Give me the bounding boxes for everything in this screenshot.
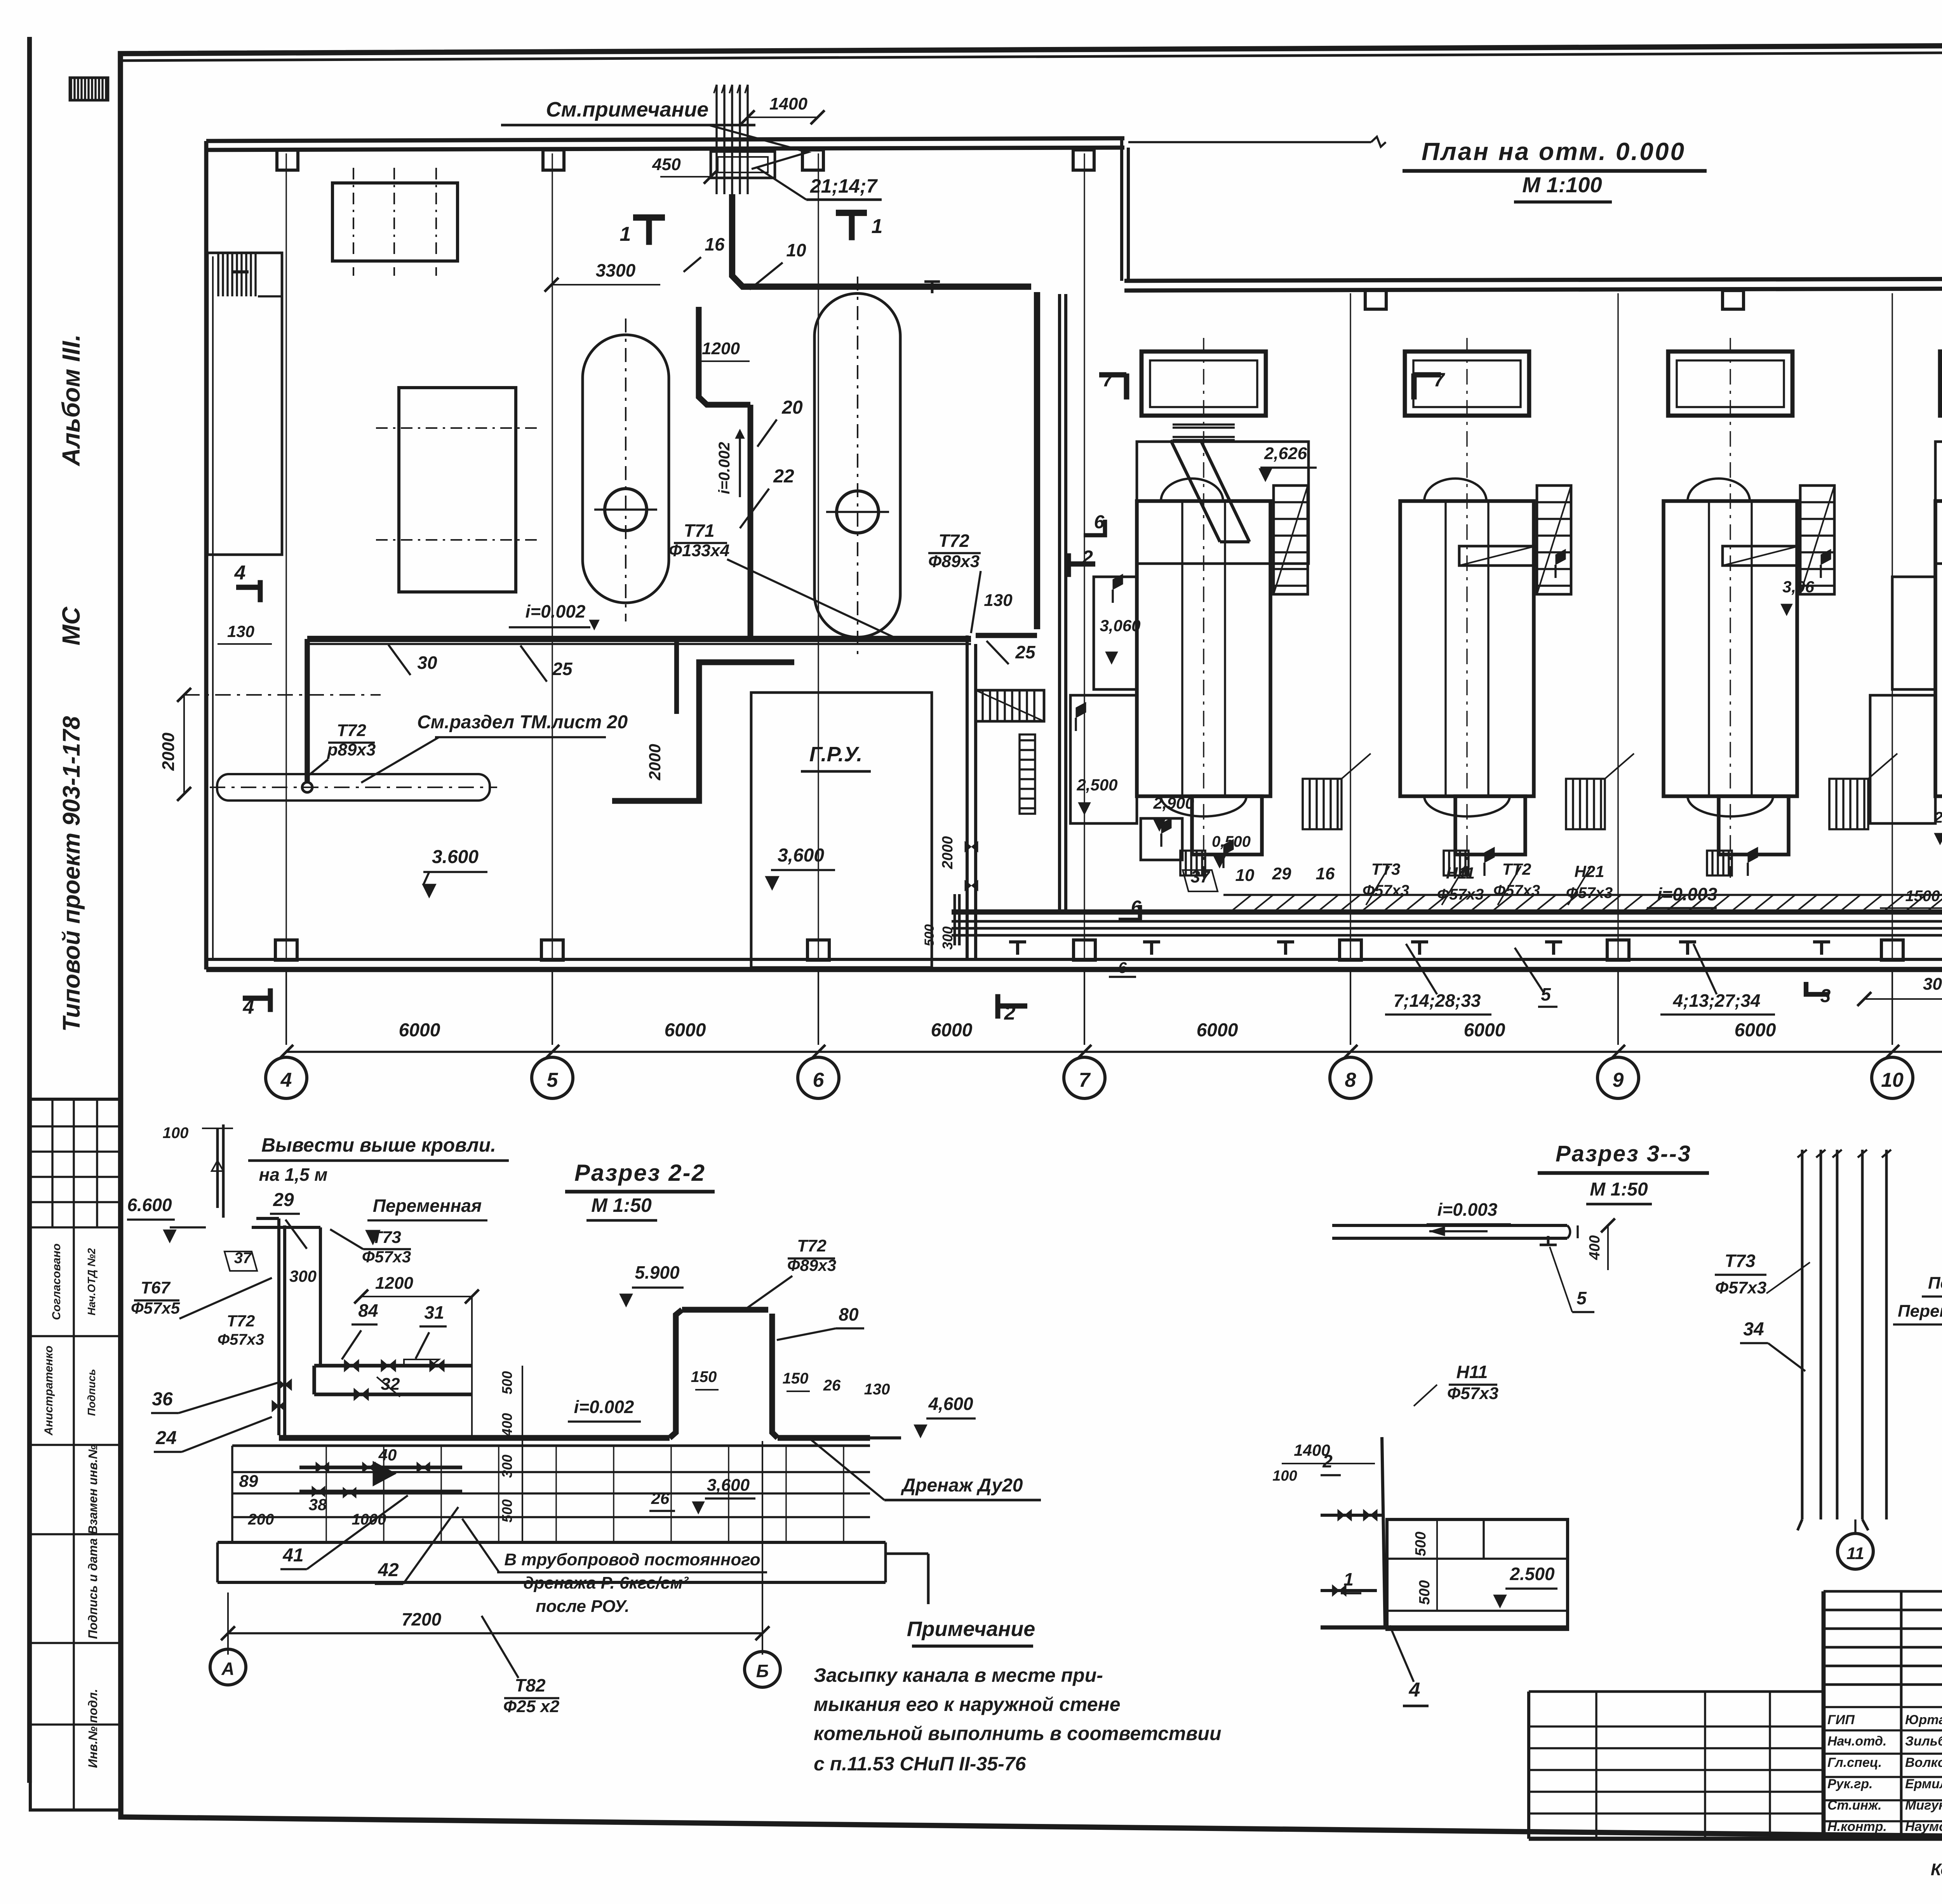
- svg-text:16: 16: [705, 234, 725, 254]
- svg-text:10: 10: [1881, 1069, 1904, 1091]
- svg-text:16: 16: [1316, 864, 1335, 883]
- label 80 sec2: [777, 1304, 864, 1340]
- grid bubble 11 sec3: [1838, 1519, 1873, 1569]
- section mark 6 upper: [1084, 512, 1105, 535]
- svg-text:2,626: 2,626: [1264, 444, 1307, 463]
- risers 2-2: [252, 1218, 320, 1435]
- svg-text:Ф57х5: Ф57х5: [131, 1299, 180, 1317]
- svg-text:3,060: 3,060: [1100, 616, 1140, 635]
- svg-text:дренажа Р. 6кгс/см²: дренажа Р. 6кгс/см²: [523, 1573, 689, 1592]
- dims 300 1200 sec2: [289, 1267, 479, 1304]
- svg-text:Т72: Т72: [337, 721, 366, 740]
- svg-text:29: 29: [273, 1190, 294, 1210]
- svg-text:4: 4: [1409, 1679, 1420, 1701]
- label Т72 Ф89x3 sec2: [746, 1236, 836, 1309]
- label 21;14;7: [757, 168, 882, 200]
- revision table left margin: [30, 1099, 120, 1810]
- note text line2: [814, 1693, 1121, 1715]
- leader label 5: [1515, 948, 1557, 1007]
- drain note sec2: [462, 1519, 767, 1616]
- svg-text:21;14;7: 21;14;7: [810, 175, 878, 197]
- svg-text:150: 150: [783, 1370, 809, 1387]
- svg-text:Ф57х3: Ф57х3: [362, 1248, 411, 1266]
- svg-text:36: 36: [152, 1389, 173, 1410]
- svg-text:6000: 6000: [399, 1020, 440, 1041]
- trench box sec3: [1387, 1519, 1568, 1629]
- floor channel pipes along axis А: [952, 895, 1942, 935]
- svg-text:Юртаев: Юртаев: [1905, 1713, 1942, 1727]
- subtitle М 1:100: [1514, 172, 1612, 202]
- dim 400 sec3: [1587, 1218, 1615, 1270]
- label Копировал: [1931, 1860, 1942, 1879]
- svg-text:i=0.002: i=0.002: [526, 601, 586, 621]
- svg-text:МС: МС: [57, 606, 85, 645]
- svg-text:Взамен инв.№: Взамен инв.№: [86, 1445, 100, 1534]
- elevation 2,500 boiler1: [1076, 776, 1117, 815]
- svg-text:100: 100: [1272, 1468, 1297, 1484]
- svg-text:5.900: 5.900: [635, 1262, 680, 1283]
- svg-text:1200: 1200: [702, 339, 740, 358]
- equipment foundation F1 dashed: [332, 168, 458, 276]
- svg-text:i=0.003: i=0.003: [1657, 884, 1718, 904]
- svg-text:Г.Р.У.: Г.Р.У.: [809, 743, 863, 766]
- dim 7200 sec2: [221, 1441, 769, 1655]
- trench grid sec2: [218, 1446, 886, 1542]
- grid bubble Б sec2: [745, 1652, 780, 1687]
- section title Разрез 2-2: [565, 1160, 715, 1192]
- svg-text:1400: 1400: [769, 94, 807, 113]
- label 34 sec3: [1740, 1319, 1805, 1371]
- svg-text:3.600: 3.600: [432, 847, 479, 867]
- svg-text:42: 42: [378, 1560, 399, 1580]
- svg-text:Т73: Т73: [1724, 1251, 1756, 1271]
- svg-text:Т73: Т73: [372, 1228, 401, 1247]
- note text line3: [814, 1723, 1222, 1744]
- svg-text:500: 500: [1416, 1580, 1433, 1605]
- stamp hatch box top-left margin: [70, 78, 108, 100]
- grid bubble 9: [1597, 1057, 1639, 1098]
- position flags: [1076, 367, 1942, 876]
- label Переменная sec2: [365, 1196, 487, 1245]
- svg-text:Анистратенко: Анистратенко: [42, 1345, 55, 1436]
- grid bubble 8: [1330, 1057, 1371, 1098]
- title План на отм. 0.000: [1403, 137, 1707, 171]
- svg-text:М 1:100: М 1:100: [1522, 172, 1602, 197]
- section mark 4 bottom-left: [243, 989, 273, 1018]
- svg-text:i=0.002: i=0.002: [574, 1397, 634, 1417]
- section mark 2 bottom: [995, 994, 1027, 1024]
- section mark 1 pair: [620, 213, 883, 245]
- boiler unit 2 (ДЕ-16-14): [1400, 338, 1634, 878]
- svg-text:6000: 6000: [1464, 1020, 1505, 1041]
- svg-text:500: 500: [922, 924, 937, 947]
- labels on vertical channel: [940, 591, 1036, 950]
- svg-text:Ф57х3: Ф57х3: [1715, 1278, 1766, 1297]
- svg-text:Ф57х3: Ф57х3: [1566, 884, 1613, 902]
- svg-text:6000: 6000: [665, 1020, 706, 1041]
- margin label Типовой проект 903-1-178: [58, 716, 85, 1032]
- svg-text:Т71: Т71: [684, 520, 714, 541]
- svg-text:10: 10: [786, 240, 806, 260]
- pipe branch to tank T72: [305, 639, 310, 781]
- svg-text:4: 4: [280, 1069, 292, 1091]
- svg-text:Типовой проект 903-1-178: Типовой проект 903-1-178: [58, 716, 85, 1032]
- svg-text:Альбом III.: Альбом III.: [57, 334, 85, 467]
- svg-text:Ф57х3: Ф57х3: [1363, 882, 1409, 899]
- dim 2000 vertical at jog: [646, 744, 664, 780]
- svg-text:6.600: 6.600: [127, 1195, 172, 1215]
- svg-text:500: 500: [1413, 1532, 1429, 1556]
- dim 3300: [545, 260, 660, 292]
- svg-text:130: 130: [864, 1381, 890, 1398]
- svg-text:500: 500: [499, 1499, 515, 1523]
- ladder right of ГРУ: [1020, 734, 1035, 814]
- channel riser pipes at axis 6-7: [922, 894, 1136, 977]
- svg-text:5: 5: [547, 1069, 559, 1091]
- svg-text:450: 450: [652, 155, 681, 174]
- svg-text:2,190: 2,190: [1934, 809, 1942, 826]
- svg-text:2.500: 2.500: [1509, 1564, 1555, 1584]
- label Т73 sec2: [330, 1228, 411, 1266]
- pipe channel vertical to axis А: [965, 635, 978, 959]
- boiler unit 4 (ДЕ-16-14): [1935, 338, 1942, 878]
- labels 2 1 4 sec3: [1321, 1451, 1429, 1706]
- svg-text:6: 6: [1094, 512, 1105, 533]
- svg-text:Волков: Волков: [1905, 1755, 1942, 1770]
- svg-text:Подпись: Подпись: [85, 1369, 97, 1416]
- label Дренаж Ду20: [808, 1437, 1041, 1500]
- svg-text:на 1,5 м: на 1,5 м: [259, 1164, 328, 1185]
- elevation 0,500 boiler1: [1212, 833, 1251, 868]
- span dimensions 6000: [399, 1020, 1942, 1041]
- svg-text:26: 26: [823, 1377, 841, 1394]
- note title Примечание: [907, 1617, 1035, 1646]
- label 5 sec3: [1550, 1247, 1594, 1312]
- wall step at axis 7: [1122, 139, 1128, 281]
- leader labels 7;14;28;33: [1385, 944, 1491, 1015]
- svg-text:500: 500: [499, 1371, 515, 1394]
- dims 150 150 26 130 sec2: [691, 1368, 890, 1398]
- column footprints on bottom wall: [275, 940, 1942, 960]
- svg-text:Зильберштейн: Зильберштейн: [1905, 1734, 1942, 1749]
- label Т72 р89x3: [307, 721, 376, 777]
- svg-text:План на отм. 0.000: План на отм. 0.000: [1422, 137, 1686, 165]
- svg-text:Подпись и дата: Подпись и дата: [86, 1538, 100, 1639]
- grid axis verticals: [286, 153, 1942, 959]
- svg-text:22: 22: [773, 466, 794, 487]
- dim 130 left: [218, 622, 272, 644]
- svg-text:9: 9: [1613, 1069, 1624, 1091]
- section 2-2 М 1:50: [586, 1194, 657, 1220]
- svg-text:34: 34: [1743, 1319, 1764, 1340]
- svg-text:30: 30: [417, 653, 437, 673]
- svg-text:5: 5: [1577, 1288, 1587, 1308]
- grid dimension line bottom: [279, 969, 1942, 1059]
- margin label МС: [57, 606, 85, 645]
- svg-text:130: 130: [984, 591, 1013, 610]
- dims 1400 100 sec3: [1272, 1441, 1375, 1484]
- svg-text:См.примечание: См.примечание: [546, 98, 709, 121]
- svg-text:7: 7: [1079, 1069, 1091, 1091]
- svg-text:Ф57х3: Ф57х3: [1493, 882, 1540, 899]
- svg-text:после РОУ.: после РОУ.: [536, 1597, 629, 1616]
- svg-text:200: 200: [248, 1511, 274, 1528]
- svg-text:89: 89: [239, 1472, 258, 1491]
- dim 1200 between tanks: [699, 339, 750, 361]
- riser pair to channel at axis 7: [1060, 294, 1066, 912]
- svg-text:150: 150: [691, 1368, 717, 1385]
- svg-text:8: 8: [1345, 1069, 1356, 1091]
- svg-text:Переменная: Переменная: [1928, 1274, 1942, 1293]
- boiler unit 3 (ДЕ-16-14): [1664, 338, 1897, 878]
- svg-text:А: А: [221, 1659, 234, 1679]
- svg-text:См.раздел ТМ.лист 20: См.раздел ТМ.лист 20: [417, 712, 628, 733]
- elevation 3,06 boiler3-4: [1781, 578, 1815, 616]
- label Т82 Ф25x2: [482, 1616, 560, 1716]
- wall top left section: [206, 138, 1124, 150]
- margin label Альбом III: [57, 334, 85, 467]
- equipment foundation F2 dashed: [376, 388, 540, 592]
- svg-text:Б: Б: [756, 1661, 769, 1681]
- section mark 3 mid: [1806, 982, 1831, 1006]
- svg-text:1400: 1400: [1294, 1441, 1330, 1459]
- svg-text:1200: 1200: [375, 1274, 413, 1293]
- svg-text:400: 400: [1587, 1235, 1603, 1260]
- svg-text:Н.контр.: Н.контр.: [1827, 1819, 1887, 1834]
- svg-text:1500: 1500: [1905, 888, 1940, 905]
- pipe position labels above channel: [1183, 860, 1942, 1006]
- pipe jog near ГРУ: [612, 639, 794, 801]
- svg-text:80: 80: [839, 1304, 859, 1324]
- roof line break right of step: [1128, 137, 1386, 147]
- boiler1 left platform boxes: [1070, 577, 1182, 860]
- title block middle table: [1824, 1591, 1942, 1839]
- svg-text:1: 1: [872, 215, 883, 238]
- svg-text:Ф57х3: Ф57х3: [1447, 1384, 1498, 1403]
- elevation 6.600 sec2: [127, 1195, 206, 1243]
- elevation 5.900 sec2: [619, 1262, 684, 1307]
- vertical dims 500 400 sec2: [499, 1366, 522, 1542]
- svg-text:i=0.002: i=0.002: [716, 442, 733, 494]
- dim 2000 left of tank: [159, 688, 381, 801]
- svg-text:25: 25: [552, 659, 573, 679]
- svg-text:Разрез 2-2: Разрез 2-2: [574, 1160, 706, 1186]
- section mark 4 top-left: [234, 562, 263, 602]
- section mark 2 top: [1066, 546, 1095, 577]
- svg-text:6000: 6000: [931, 1020, 973, 1041]
- svg-text:24: 24: [155, 1428, 176, 1448]
- svg-text:М 1:50: М 1:50: [1590, 1179, 1648, 1200]
- labels 41 42 sec2: [280, 1495, 458, 1584]
- riser bundle to roof: [711, 85, 775, 194]
- svg-text:41: 41: [282, 1545, 303, 1566]
- elevation 2,900 boiler1: [1153, 794, 1194, 831]
- svg-text:Ермилов: Ермилов: [1905, 1777, 1942, 1791]
- svg-text:4,600: 4,600: [928, 1394, 973, 1414]
- svg-text:26: 26: [651, 1489, 670, 1507]
- svg-text:2000: 2000: [646, 744, 664, 780]
- label i=0.002 sec2: [568, 1397, 641, 1422]
- svg-text:6: 6: [813, 1069, 825, 1091]
- channel hatching: [1231, 895, 1942, 911]
- svg-text:Инв.№ подл.: Инв.№ подл.: [86, 1689, 100, 1768]
- svg-text:20: 20: [781, 397, 803, 418]
- dim 450 top: [652, 155, 718, 184]
- section mark 7 left: [1099, 369, 1129, 399]
- grid bubble А sec2: [210, 1649, 246, 1685]
- svg-text:1000: 1000: [352, 1511, 386, 1528]
- grid bubble 5: [532, 1057, 573, 1098]
- svg-text:Наумов: Наумов: [1905, 1819, 1942, 1834]
- page edge left: [27, 37, 32, 1783]
- svg-text:Рук.гр.: Рук.гр.: [1827, 1777, 1873, 1791]
- svg-text:29: 29: [1272, 864, 1291, 883]
- svg-text:6: 6: [1118, 959, 1127, 976]
- svg-text:Дренаж Ду20: Дренаж Ду20: [901, 1475, 1023, 1496]
- svg-text:Н21: Н21: [1574, 862, 1604, 881]
- labels 30 and 25 on main pipe: [388, 645, 573, 682]
- foundation band sec2: [218, 1542, 928, 1604]
- svg-text:400: 400: [499, 1413, 515, 1437]
- svg-text:1: 1: [620, 223, 631, 245]
- manifold 2-2 upper: [314, 1300, 472, 1401]
- horizontal tank / collector: [210, 774, 497, 801]
- elevation mark 3.600 left: [422, 847, 487, 898]
- svg-text:Переменная: Переменная: [1898, 1302, 1942, 1321]
- svg-text:Т67: Т67: [141, 1278, 171, 1297]
- svg-text:ТТ3: ТТ3: [1371, 860, 1401, 878]
- svg-text:i=0.003: i=0.003: [1437, 1199, 1498, 1220]
- grid bubble 6: [798, 1057, 839, 1098]
- svg-text:4: 4: [234, 562, 246, 584]
- svg-text:с п.11.53 СНиП II-35-76: с п.11.53 СНиП II-35-76: [814, 1753, 1027, 1775]
- labels 16 10 20 left risers: [684, 234, 806, 447]
- column stubs on top walls: [277, 150, 1942, 309]
- svg-text:7200: 7200: [402, 1609, 442, 1629]
- svg-text:Ст.инж.: Ст.инж.: [1827, 1798, 1882, 1813]
- svg-text:Гл.спец.: Гл.спец.: [1827, 1755, 1882, 1770]
- label Т72 Ф89x3 plan right: [928, 531, 981, 633]
- svg-text:Т72: Т72: [938, 531, 969, 551]
- boiler4 left platform boxes: [1870, 577, 1935, 823]
- section mark 7 right: [1411, 369, 1445, 399]
- labels 36 24 sec2: [151, 1383, 278, 1452]
- leader labels 4;13;27;34: [1660, 944, 1775, 1015]
- svg-text:84: 84: [358, 1300, 378, 1321]
- svg-text:1: 1: [1343, 1569, 1354, 1589]
- label 29 sec2: [270, 1190, 307, 1249]
- label См.примечание: [501, 98, 808, 169]
- label 22: [740, 466, 794, 528]
- svg-text:31: 31: [424, 1302, 444, 1323]
- svg-text:32: 32: [381, 1375, 400, 1394]
- svg-text:котельной выполнить в соотв: котельной выполнить в соответствии: [814, 1723, 1222, 1744]
- svg-text:Засыпку канала в месте при: Засыпку канала в месте при-: [814, 1664, 1103, 1686]
- staircase shaft left: [207, 253, 282, 555]
- svg-text:Т82: Т82: [515, 1675, 546, 1695]
- wall top right section: [1124, 278, 1942, 291]
- svg-text:М 1:50: М 1:50: [591, 1194, 652, 1216]
- svg-text:Н11: Н11: [1456, 1362, 1488, 1382]
- label См.раздел ТМ.лист20: [361, 712, 628, 783]
- pipe main horizontal i=0.002: [307, 639, 971, 644]
- svg-text:Примечание: Примечание: [907, 1617, 1035, 1641]
- stairs right of ГРУ: [976, 690, 1044, 721]
- elevation 2.500 sec3: [1493, 1564, 1557, 1608]
- svg-text:40: 40: [378, 1446, 397, 1464]
- dim 1400 top: [741, 94, 825, 124]
- pipe riser between tanks: [699, 307, 750, 636]
- boiler unit 1 (ДЕ-16-14): [1137, 338, 1371, 878]
- svg-text:Нач.ОТД №2: Нач.ОТД №2: [85, 1248, 97, 1316]
- svg-text:38: 38: [309, 1495, 327, 1514]
- elevation 3,600 sec2 and 26: [649, 1476, 755, 1514]
- svg-text:11: 11: [1846, 1544, 1864, 1563]
- svg-text:3,06: 3,06: [1782, 578, 1814, 596]
- pipe top sec3: [1332, 1225, 1578, 1245]
- svg-text:300: 300: [499, 1455, 515, 1478]
- label Н11 sec3: [1414, 1362, 1498, 1406]
- svg-text:Согласовано: Согласовано: [50, 1243, 63, 1320]
- vent stack 2-2: [163, 1124, 233, 1218]
- svg-text:130: 130: [227, 622, 254, 640]
- svg-text:3300: 3300: [596, 260, 636, 280]
- svg-text:3,600: 3,600: [778, 845, 824, 866]
- svg-text:Переменная: Переменная: [373, 1196, 482, 1216]
- svg-text:2000: 2000: [159, 733, 178, 771]
- riser bundle sec3: [1798, 1150, 1891, 1530]
- svg-text:ГИП: ГИП: [1827, 1713, 1855, 1727]
- note text line4: [814, 1753, 1027, 1775]
- note text line1: [814, 1664, 1103, 1686]
- tank B2 vertical: [814, 277, 900, 656]
- label i=0.002 with arrow: [509, 601, 599, 630]
- label i=0.002 rotated left: [716, 429, 745, 497]
- note Вывести выше кровли: [248, 1134, 509, 1185]
- title block left table: [1529, 1692, 1824, 1839]
- elevation 3,060 boiler1: [1100, 616, 1140, 664]
- bottom band sec3: [1321, 1626, 1568, 1630]
- svg-text:6000: 6000: [1735, 1020, 1776, 1041]
- svg-text:Ф25 х2: Ф25 х2: [503, 1697, 560, 1716]
- section 3-3 М 1:50: [1586, 1179, 1652, 1204]
- elevation 4.600 sec2: [914, 1394, 976, 1438]
- pipe supports T marks: [1009, 942, 1942, 955]
- svg-text:Ф89х3: Ф89х3: [928, 552, 980, 571]
- grid bubble 4: [266, 1057, 307, 1098]
- svg-text:ТТ2: ТТ2: [1502, 860, 1531, 878]
- wall left exterior: [206, 141, 213, 969]
- elevation mark 3.600 right: [765, 845, 835, 890]
- manifold 2-2 lower: [239, 1446, 462, 1528]
- labels Переменная sec3: [1893, 1274, 1942, 1342]
- svg-text:300: 300: [289, 1267, 317, 1285]
- svg-text:3000: 3000: [1923, 975, 1942, 994]
- labels Т67 Т72 37 sec2: [131, 1250, 272, 1348]
- svg-text:3,600: 3,600: [707, 1476, 750, 1495]
- room ГРУ: [751, 693, 932, 968]
- elevation 2,626 at boiler1: [1259, 444, 1317, 482]
- label i=0.003 sec3: [1427, 1199, 1511, 1236]
- svg-text:2,900: 2,900: [1153, 794, 1194, 812]
- svg-text:В трубопровод постоянного: В трубопровод постоянного: [504, 1550, 760, 1569]
- svg-text:Ф57х3: Ф57х3: [218, 1331, 264, 1348]
- svg-text:2000: 2000: [940, 836, 956, 870]
- wall bottom axis А: [206, 959, 1942, 969]
- label Т73 sec3: [1715, 1251, 1810, 1297]
- svg-text:2,500: 2,500: [1076, 776, 1117, 794]
- svg-text:10: 10: [1236, 866, 1255, 885]
